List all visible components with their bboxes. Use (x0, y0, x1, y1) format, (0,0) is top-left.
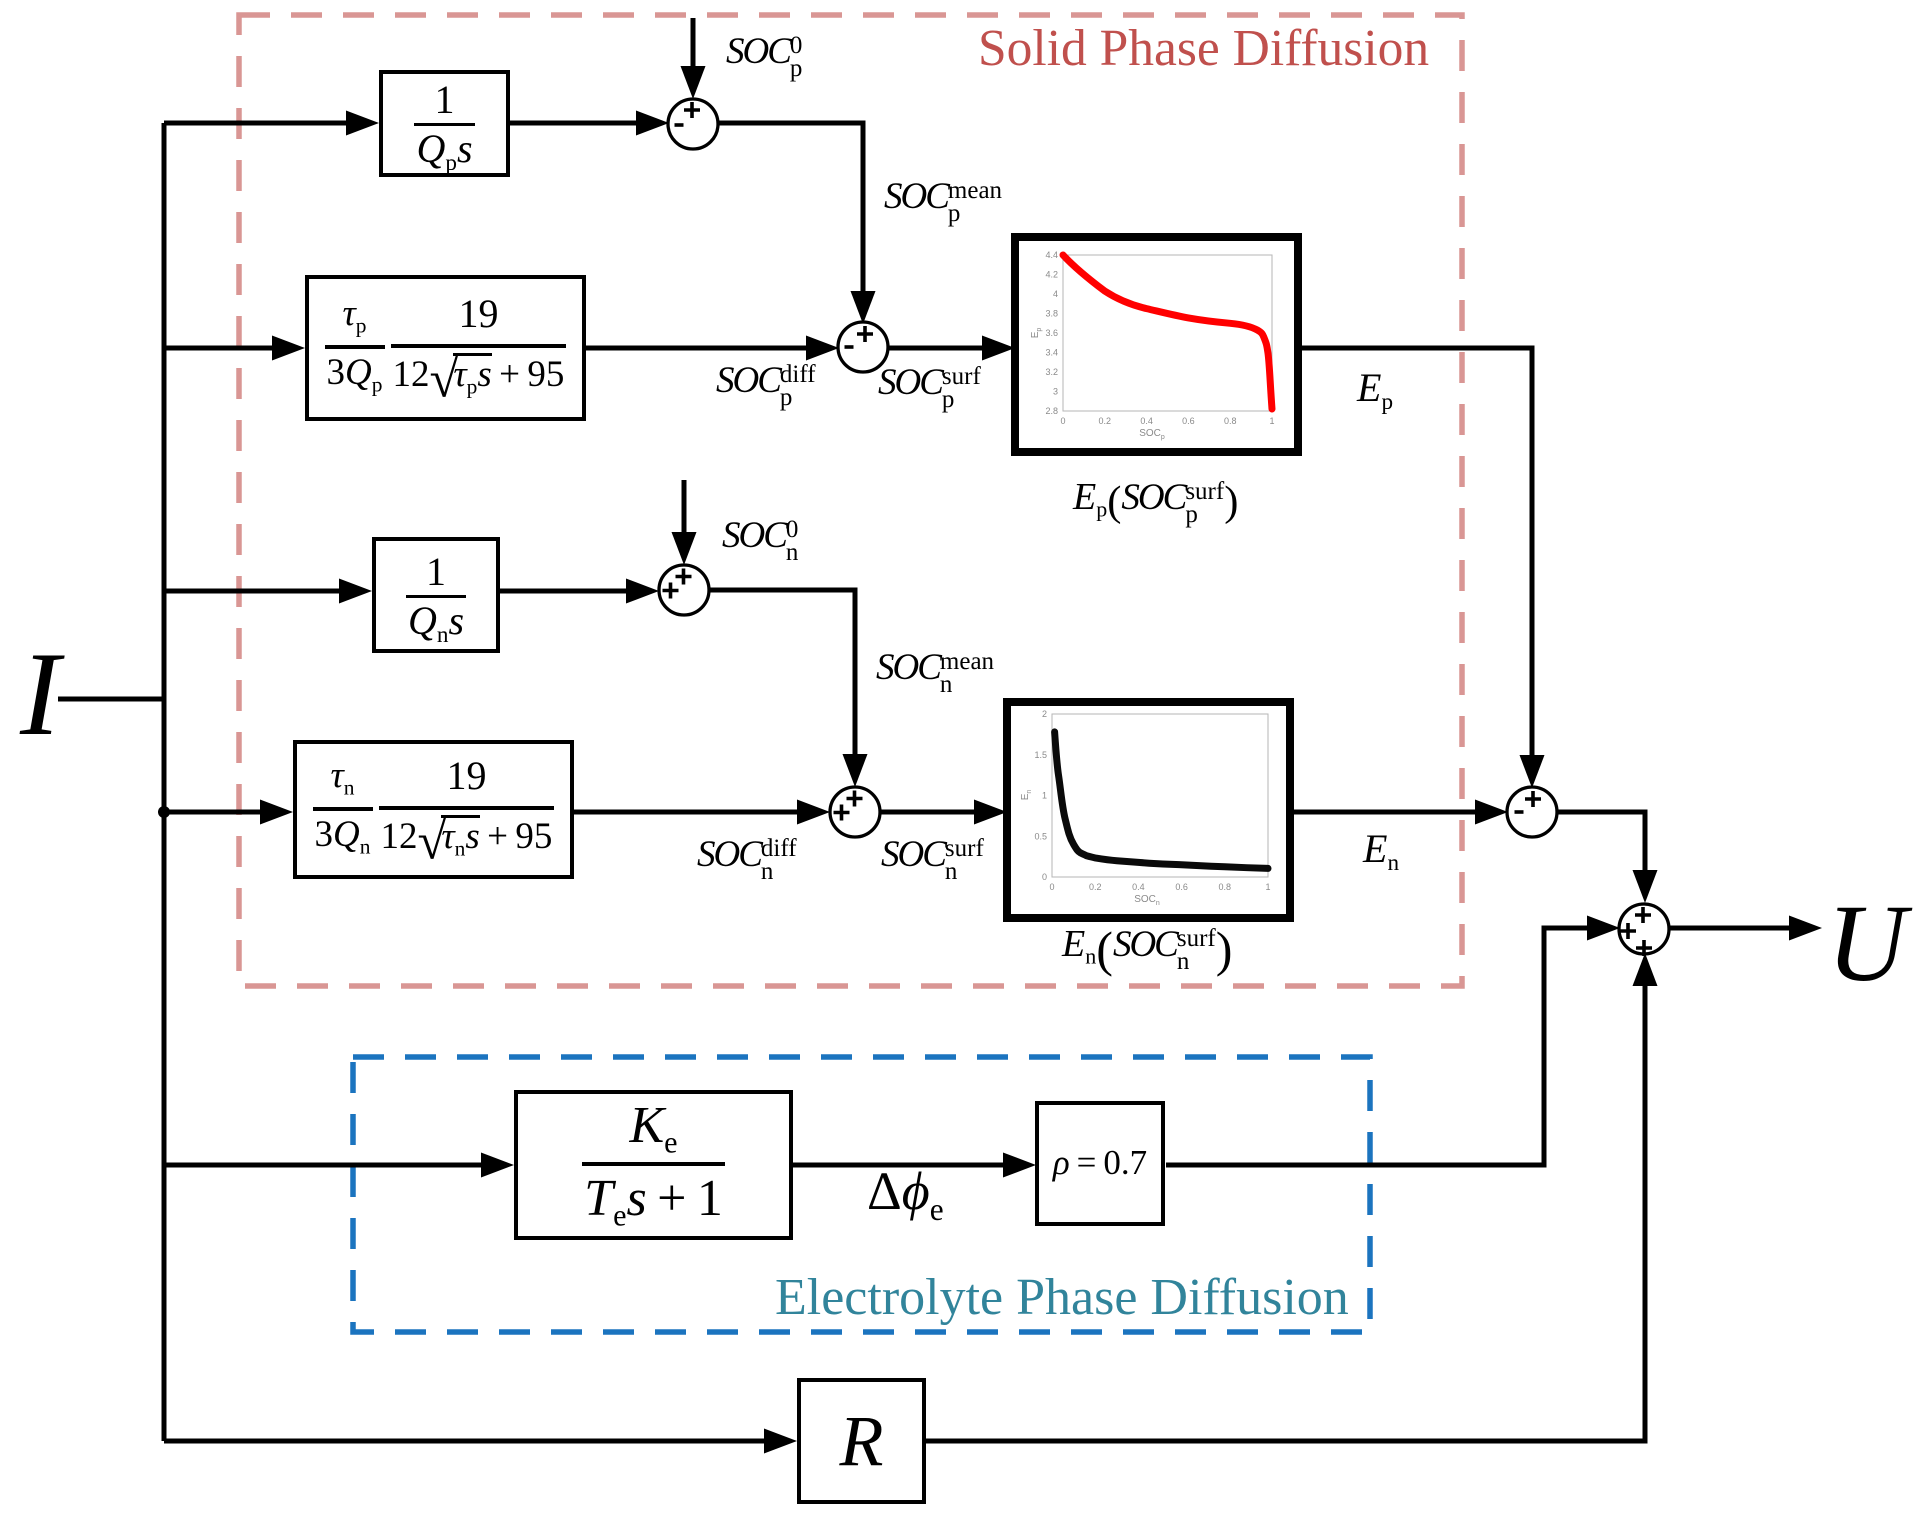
arrowhead into S5 (797, 800, 830, 825)
wire U output (1670, 926, 1789, 931)
label SOCn mean (876, 649, 994, 696)
wire Gp1 to sum S1 (509, 121, 636, 126)
svg-text:3.8: 3.8 (1045, 309, 1058, 319)
arrowhead rho into S6 (1587, 916, 1620, 941)
arrowhead into Gn1 (339, 579, 372, 604)
svg-text:1.5: 1.5 (1034, 750, 1047, 760)
wire Gp2 to sum S2 (585, 346, 806, 351)
S4 top plus sign (676, 569, 692, 585)
arrowhead into S2 (806, 336, 839, 361)
arrowhead S4 out into S5 (843, 754, 868, 787)
S4 left plus sign (663, 583, 679, 599)
wire branch to block R (164, 1439, 764, 1444)
S6 left plus sign (1620, 923, 1636, 939)
wire En map to sum S3 (1290, 810, 1475, 815)
svg-text:0.2: 0.2 (1089, 882, 1102, 892)
label delta phi e (867, 1164, 944, 1218)
svg-text:0: 0 (1060, 416, 1065, 426)
arrowhead SOCp0 into S1 (681, 66, 706, 99)
label SOCn surf (881, 836, 984, 883)
S5 left plus sign (834, 805, 850, 821)
svg-text:1: 1 (1042, 791, 1047, 801)
svg-text:0.6: 0.6 (1182, 416, 1195, 426)
wire branch to block Gp2 (164, 346, 272, 351)
wire trunk (162, 123, 167, 1441)
wire Ep map to sum S3 (1298, 348, 1532, 755)
arrowhead into Gp1 (346, 111, 379, 136)
S2 plus sign (857, 326, 873, 342)
svg-text:4.2: 4.2 (1045, 270, 1058, 280)
svg-text:0: 0 (1049, 882, 1054, 892)
arrowhead into En map (974, 800, 1007, 825)
junction dot on trunk (158, 806, 170, 818)
dashed region: Electrolyte Phase Diffusion (353, 1057, 1370, 1332)
summing junction S2 (838, 322, 888, 372)
label En (1363, 829, 1399, 869)
svg-text:1: 1 (1265, 882, 1270, 892)
label SOCp diff (716, 362, 816, 409)
svg-text:0.8: 0.8 (1224, 416, 1237, 426)
svg-text:0.4: 0.4 (1132, 882, 1145, 892)
wire branch to block Ke (164, 1163, 481, 1168)
svg-text:2.8: 2.8 (1045, 406, 1058, 416)
arrowhead into S4 (626, 579, 659, 604)
block Gp2: tau_p/(3Qp) 19/(12 sqrt(tau_p s)+95) (305, 275, 586, 421)
wire branch to block Gp1 (164, 121, 346, 126)
arrowhead into Ep map (982, 336, 1015, 361)
label En(SOCn surf) (1062, 925, 1232, 973)
svg-text:3.2: 3.2 (1045, 367, 1058, 377)
dashed region: Solid Phase Diffusion (239, 15, 1462, 986)
wire I input (58, 697, 164, 702)
summing junction S6 (1619, 904, 1669, 954)
graph box En(SOCn) (1007, 702, 1290, 918)
S3 plus sign (1525, 791, 1541, 807)
svg-text:3: 3 (1053, 387, 1058, 397)
arrowhead into Ke (481, 1153, 514, 1178)
summing junction S4 (659, 565, 709, 615)
wire S1 to sum S2 (717, 123, 863, 291)
block Ke: Ke/(Te s+1) (514, 1090, 793, 1240)
S2 minus sign (845, 345, 854, 349)
wire branch to block Gn1 (164, 589, 339, 594)
wire Gn2 to sum S5 (573, 810, 797, 815)
S1 plus sign (684, 102, 700, 118)
block R (797, 1378, 926, 1504)
label Ep (1357, 368, 1393, 408)
block Gn1: 1/(Qn s) (372, 537, 500, 653)
arrowhead into R (764, 1429, 797, 1454)
graph box Ep(SOCp) (1015, 237, 1298, 452)
summing junction S3 (1507, 787, 1557, 837)
svg-text:3.4: 3.4 (1045, 348, 1058, 358)
arrowhead into Gn2 (260, 800, 293, 825)
svg-text:0.2: 0.2 (1099, 416, 1112, 426)
wire S2 to Ep map (887, 346, 982, 351)
label Ep(SOCp surf) (1073, 478, 1238, 526)
block Gn2: tau_n/(3Qn) 19/(12 sqrt(tau_n s)+95) (293, 740, 574, 879)
svg-text:2: 2 (1042, 709, 1047, 719)
arrowhead S1 out into S2 (851, 291, 876, 324)
S5 top plus sign (847, 791, 863, 807)
arrowhead Ep into S3 (1520, 755, 1545, 788)
wire R to sum S6 (926, 986, 1645, 1441)
arrowhead En into S3 (1475, 800, 1508, 825)
svg-text:4.4: 4.4 (1045, 250, 1058, 260)
arrowhead into S1 (636, 111, 669, 136)
arrowhead into Gp2 (272, 336, 305, 361)
block Gp1: 1/(Qp s) (379, 70, 510, 177)
curve En black (1055, 732, 1268, 869)
wire S4 to sum S5 (709, 590, 855, 754)
wire S5 to En map (880, 810, 974, 815)
arrowhead R into S6 (1633, 953, 1658, 986)
label I (20, 634, 60, 754)
title Solid Phase Diffusion (978, 23, 1429, 75)
wire S3 to sum S6 (1556, 812, 1645, 870)
label SOCn0 (722, 517, 798, 564)
svg-text:0: 0 (1042, 872, 1047, 882)
svg-text:0.6: 0.6 (1175, 882, 1188, 892)
label SOCp surf (878, 364, 981, 411)
svg-text:1: 1 (1269, 416, 1274, 426)
block rho = 0.7 (1035, 1101, 1165, 1226)
label SOCp mean (884, 178, 1002, 225)
curve Ep red (1063, 255, 1272, 409)
S6 bottom plus sign (1636, 940, 1652, 956)
wire rho to sum S6 (1166, 928, 1587, 1165)
S6 top plus sign (1635, 907, 1651, 923)
arrowhead S3 out into S6 (1633, 870, 1658, 903)
summing junction S1 (668, 99, 718, 149)
arrowhead into rho (1003, 1153, 1036, 1178)
label SOCn diff (697, 836, 797, 883)
arrowhead SOCn0 into S4 (672, 532, 697, 565)
title Electrolyte Phase Diffusion (775, 1272, 1349, 1324)
svg-text:3.6: 3.6 (1045, 328, 1058, 338)
svg-text:0.8: 0.8 (1219, 882, 1232, 892)
svg-text:0.5: 0.5 (1034, 831, 1047, 841)
wire Gn1 to sum S4 (500, 589, 626, 594)
wire branch to block Gn2 (164, 810, 260, 815)
label SOCp0 (726, 33, 802, 80)
wire Ke to block rho (793, 1163, 1003, 1168)
svg-text:0.4: 0.4 (1140, 416, 1153, 426)
arrowhead U output (1789, 916, 1822, 941)
wire SOCn0 input (682, 480, 687, 532)
label U (1827, 888, 1906, 998)
S3 minus sign (1515, 810, 1524, 814)
wire SOCp0 input (691, 18, 696, 66)
svg-text:4: 4 (1053, 289, 1058, 299)
summing junction S5 (830, 787, 880, 837)
S1 minus sign (675, 123, 684, 127)
